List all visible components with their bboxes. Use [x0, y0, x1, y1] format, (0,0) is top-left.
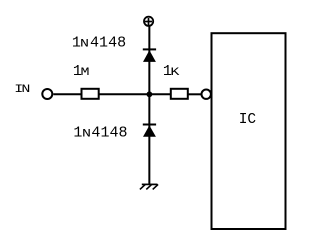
- IC box U1: [212, 33, 286, 229]
- label 1N4148 (top): [72, 34, 126, 51]
- wire node A to ground: [148, 94, 150, 184]
- node IN label: [14, 83, 30, 96]
- svg-text:N: N: [80, 37, 89, 50]
- wire R1 to node A: [99, 93, 150, 95]
- label 1M: [73, 63, 90, 80]
- svg-text:IC: IC: [239, 112, 257, 128]
- wire node A to R2: [149, 93, 171, 95]
- wire IN terminal to R1: [53, 93, 81, 95]
- svg-text:N: N: [21, 83, 30, 96]
- wire vertical supply to node A: [148, 26, 150, 94]
- ground: [140, 184, 158, 189]
- junction node A: [147, 91, 153, 97]
- svg-text:8: 8: [119, 125, 128, 142]
- svg-text:1: 1: [101, 125, 110, 142]
- terminal IN: [42, 89, 52, 99]
- supply terminal +: [144, 17, 153, 26]
- svg-text:K: K: [170, 66, 179, 79]
- terminal at IC pin: [202, 90, 211, 99]
- resistor R2: [171, 89, 188, 99]
- svg-text:8: 8: [117, 34, 126, 51]
- diode D2 1N4148 (to ground): [143, 125, 156, 137]
- wire R2 to IC pin terminal: [188, 93, 202, 95]
- label 1N4148 (bottom): [73, 125, 127, 142]
- svg-text:M: M: [81, 66, 90, 79]
- diode D1 1N4148 (to supply): [143, 49, 156, 62]
- resistor R1: [82, 89, 99, 99]
- svg-text:1: 1: [99, 34, 108, 51]
- label 1K: [163, 63, 180, 80]
- svg-text:N: N: [82, 127, 91, 140]
